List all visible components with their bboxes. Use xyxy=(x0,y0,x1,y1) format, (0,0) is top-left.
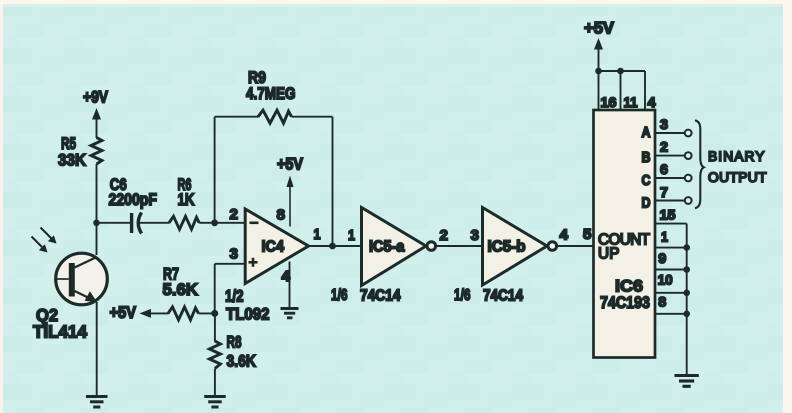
label IC4 xyxy=(262,239,285,256)
wire pin15 out xyxy=(655,223,687,225)
wire feedback top right xyxy=(292,116,333,118)
pin 3 label xyxy=(230,246,239,263)
pin 8 label right xyxy=(658,294,666,310)
svg-text:1: 1 xyxy=(661,229,668,245)
label BINARY OUTPUT xyxy=(708,149,767,185)
pin 11 label xyxy=(624,94,638,110)
label R8 3.6K xyxy=(227,333,257,371)
svg-text:R8: R8 xyxy=(227,333,242,352)
svg-text:3: 3 xyxy=(660,116,668,132)
label Q2 TIL414 xyxy=(33,305,87,342)
terminal circle D xyxy=(685,197,692,204)
svg-text:C: C xyxy=(642,173,651,189)
ground Q2 xyxy=(86,397,108,408)
+5V arrow op-amp xyxy=(286,176,293,227)
svg-text:3.6K: 3.6K xyxy=(227,352,257,371)
wire pin A out xyxy=(655,132,685,134)
ground R8 xyxy=(204,397,226,408)
svg-text:3: 3 xyxy=(230,246,239,263)
label R7 5.6K xyxy=(163,265,199,300)
output D letter xyxy=(642,196,651,212)
+5V label R7 xyxy=(110,304,137,322)
svg-text:UP: UP xyxy=(598,246,620,263)
svg-text:A: A xyxy=(642,125,651,141)
output A letter xyxy=(642,125,651,141)
IC4 plus sign xyxy=(249,258,258,267)
node junction pin11 xyxy=(617,68,624,75)
svg-text:1: 1 xyxy=(348,227,355,244)
ground IC6 xyxy=(675,376,699,387)
svg-text:74C14: 74C14 xyxy=(360,288,401,305)
node junction pin1 xyxy=(683,244,690,251)
pin 6 label C xyxy=(660,161,668,177)
node junction pin9 xyxy=(683,266,690,273)
label IC6 74C193 xyxy=(600,277,650,313)
Q2 base bar xyxy=(69,263,75,297)
svg-text:3: 3 xyxy=(471,227,480,244)
svg-text:1K: 1K xyxy=(178,190,196,209)
wire node to C6 xyxy=(97,222,131,224)
phototransistor Q2 light arrows xyxy=(32,228,57,253)
label R5 33K xyxy=(58,134,87,170)
svg-text:8: 8 xyxy=(658,294,666,310)
svg-text:4: 4 xyxy=(648,94,656,110)
wire pin B out xyxy=(655,155,685,157)
pin 10 label xyxy=(658,272,673,288)
pin 1 label right xyxy=(661,229,668,245)
wire feedback left vertical xyxy=(214,117,216,223)
wire pin16 drop xyxy=(598,71,600,110)
label R9 4.7MEG xyxy=(246,68,296,103)
svg-text:4.7MEG: 4.7MEG xyxy=(246,84,296,103)
transistor Q2 body xyxy=(56,253,108,305)
svg-text:B: B xyxy=(642,150,651,166)
pin 15 label xyxy=(660,207,676,223)
node junction C6 tap xyxy=(93,220,100,227)
wire Q2 emitter to ground xyxy=(96,302,98,395)
IC6 box 74C193 xyxy=(594,110,656,358)
svg-text:IC5-a: IC5-a xyxy=(369,239,405,256)
+5V label op-amp xyxy=(277,156,303,174)
svg-text:5.6K: 5.6K xyxy=(163,280,199,299)
wire top supply bus xyxy=(599,70,646,72)
pin 16 label xyxy=(601,94,617,110)
svg-text:BINARY: BINARY xyxy=(708,149,765,164)
svg-text:TL092: TL092 xyxy=(226,305,270,324)
pin 4 label xyxy=(282,268,291,285)
svg-text:74C14: 74C14 xyxy=(483,288,523,305)
svg-text:+9V: +9V xyxy=(83,89,108,107)
svg-text:1/6: 1/6 xyxy=(331,287,348,304)
node junction pin16 xyxy=(595,68,602,75)
Q2 emitter lead with arrow xyxy=(75,291,98,303)
inverter IC5-b xyxy=(483,208,557,286)
svg-text:10: 10 xyxy=(658,272,673,288)
resistor R5 xyxy=(91,138,102,165)
terminal circle C xyxy=(685,175,692,182)
+9V arrow xyxy=(92,108,101,138)
wire pin C out xyxy=(655,177,685,179)
Q2 collector lead xyxy=(75,257,97,268)
svg-text:1/6: 1/6 xyxy=(454,287,471,304)
svg-text:15: 15 xyxy=(660,207,676,223)
ground op-amp xyxy=(281,309,299,318)
resistor R8 xyxy=(209,341,220,369)
brace binary output xyxy=(695,120,704,208)
pin 8 label xyxy=(277,207,286,224)
svg-text:D: D xyxy=(642,196,651,212)
wire pin4 drop xyxy=(644,71,646,110)
node junction R7 R8 xyxy=(211,310,218,317)
label C6 2200pF xyxy=(109,175,158,209)
svg-text:33K: 33K xyxy=(58,151,87,170)
wire pin D out xyxy=(655,200,685,202)
node junction feedback tap xyxy=(211,219,218,226)
pin 4 label top xyxy=(648,94,656,110)
IC4 minus sign xyxy=(250,222,259,225)
svg-text:4: 4 xyxy=(560,227,569,244)
svg-text:7: 7 xyxy=(660,184,668,200)
svg-text:OUTPUT: OUTPUT xyxy=(708,170,767,185)
node junction pin8 xyxy=(683,311,690,318)
wire ground bus vertical xyxy=(686,224,688,375)
svg-text:2: 2 xyxy=(230,206,239,223)
inverter IC5-a xyxy=(362,208,436,286)
wire node to R8 xyxy=(214,313,216,341)
pin 3 label IC5-b in xyxy=(471,227,480,244)
svg-text:11: 11 xyxy=(624,94,638,110)
+5V arrow left R7 xyxy=(140,309,169,318)
wire R6 to op-amp pin2 xyxy=(199,222,245,224)
label 1/6 74C14 first xyxy=(331,287,401,305)
pin 2 label B xyxy=(660,139,668,155)
pin 1 label IC5-a in xyxy=(348,227,355,244)
label IC5-a xyxy=(369,239,405,256)
wire R7 to node xyxy=(199,312,215,314)
svg-text:5: 5 xyxy=(583,226,592,243)
wire feedback top left xyxy=(215,116,259,118)
wire pin10 out xyxy=(655,292,687,294)
label COUNT UP xyxy=(598,232,650,263)
svg-text:2: 2 xyxy=(440,227,449,244)
resistor R6 xyxy=(169,216,199,229)
Q2 base stub xyxy=(56,278,69,280)
wire pin8 out xyxy=(655,313,687,315)
+5V arrow IC6 xyxy=(594,38,603,71)
+5V label IC6 xyxy=(584,19,615,38)
pin 5 label IC6 in xyxy=(583,226,592,243)
pin 2 label xyxy=(230,206,239,223)
wire pin11 drop xyxy=(620,71,622,110)
wire pin9 out xyxy=(655,269,687,271)
resistor R9 xyxy=(258,110,292,123)
capacitor C6 xyxy=(132,213,142,234)
wire R8 to ground xyxy=(214,369,216,396)
svg-text:6: 6 xyxy=(660,161,668,177)
wire IC5-b to IC6 xyxy=(557,245,594,247)
svg-text:TIL414: TIL414 xyxy=(33,322,87,342)
output B letter xyxy=(642,150,651,166)
svg-text:1/2: 1/2 xyxy=(225,288,244,306)
svg-text:9: 9 xyxy=(658,250,666,266)
wire pin1 out xyxy=(655,247,687,249)
svg-text:2: 2 xyxy=(660,139,668,155)
op-amp U1 IC4 xyxy=(245,209,308,284)
wire pin3 horizontal xyxy=(215,263,246,265)
svg-text:74C193: 74C193 xyxy=(600,293,650,312)
node junction feedback output xyxy=(329,243,336,250)
label 1/2 TL092 xyxy=(225,288,270,324)
terminal circle A xyxy=(685,130,692,137)
+9V label xyxy=(83,89,108,107)
label R6 1K xyxy=(178,175,196,209)
wire C6 to R6 xyxy=(139,222,170,224)
node junction pin10 xyxy=(683,290,690,297)
pin 9 label xyxy=(658,250,666,266)
pin 2 label IC5-a out xyxy=(440,227,449,244)
resistor R7 xyxy=(168,307,199,320)
svg-text:+5V: +5V xyxy=(277,156,303,174)
wire feedback right vertical xyxy=(332,117,334,246)
svg-text:8: 8 xyxy=(277,207,286,224)
wire R5 to Q2 collector xyxy=(96,164,98,255)
pin 3 label A xyxy=(660,116,668,132)
svg-text:IC5-b: IC5-b xyxy=(488,239,526,256)
pin 4 label IC5-b out xyxy=(560,227,569,244)
label IC5-b xyxy=(488,239,526,256)
terminal circle B xyxy=(685,152,692,159)
svg-text:+5V: +5V xyxy=(110,304,137,322)
svg-text:+5V: +5V xyxy=(584,19,615,38)
output C letter xyxy=(642,173,651,189)
svg-text:IC4: IC4 xyxy=(262,239,285,256)
wire pin4 to ground xyxy=(289,262,291,308)
wire IC5-a to IC5-b xyxy=(436,245,483,247)
label 1/6 74C14 second xyxy=(454,287,523,305)
svg-text:2200pF: 2200pF xyxy=(109,190,158,209)
svg-text:1: 1 xyxy=(314,226,321,243)
pin 1 label IC4 out xyxy=(314,226,321,243)
wire IC4 output xyxy=(309,245,362,247)
pin 7 label D xyxy=(660,184,668,200)
wire pin3 vertical to R7 node xyxy=(214,264,216,314)
svg-text:16: 16 xyxy=(601,94,617,110)
